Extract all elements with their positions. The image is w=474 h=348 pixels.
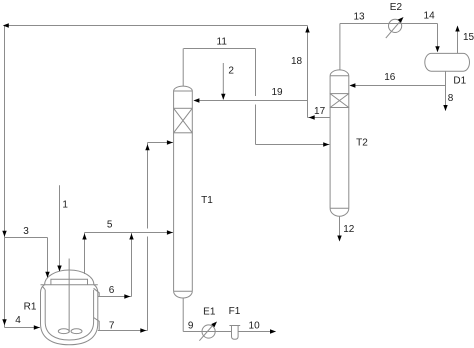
svg-text:D1: D1 [453, 76, 466, 87]
svg-text:T2: T2 [356, 138, 368, 149]
svg-text:2: 2 [228, 65, 234, 76]
svg-text:E2: E2 [390, 2, 403, 13]
svg-text:T1: T1 [201, 195, 213, 206]
svg-text:8: 8 [448, 93, 454, 104]
svg-text:4: 4 [15, 315, 21, 326]
svg-text:12: 12 [343, 224, 355, 235]
svg-text:15: 15 [463, 32, 474, 43]
svg-text:14: 14 [424, 11, 436, 22]
svg-text:F1: F1 [229, 306, 241, 317]
svg-text:6: 6 [109, 285, 115, 296]
svg-text:R1: R1 [24, 301, 37, 312]
svg-text:9: 9 [188, 320, 194, 331]
svg-text:E1: E1 [203, 307, 216, 318]
svg-text:3: 3 [23, 226, 29, 237]
svg-text:19: 19 [271, 87, 283, 98]
svg-text:1: 1 [62, 199, 68, 210]
svg-text:11: 11 [217, 37, 228, 48]
svg-text:13: 13 [353, 11, 365, 22]
svg-text:17: 17 [314, 106, 326, 117]
svg-text:10: 10 [249, 320, 261, 331]
svg-text:7: 7 [109, 321, 115, 332]
svg-text:5: 5 [107, 220, 113, 231]
svg-text:18: 18 [291, 56, 303, 67]
svg-text:16: 16 [384, 72, 396, 83]
